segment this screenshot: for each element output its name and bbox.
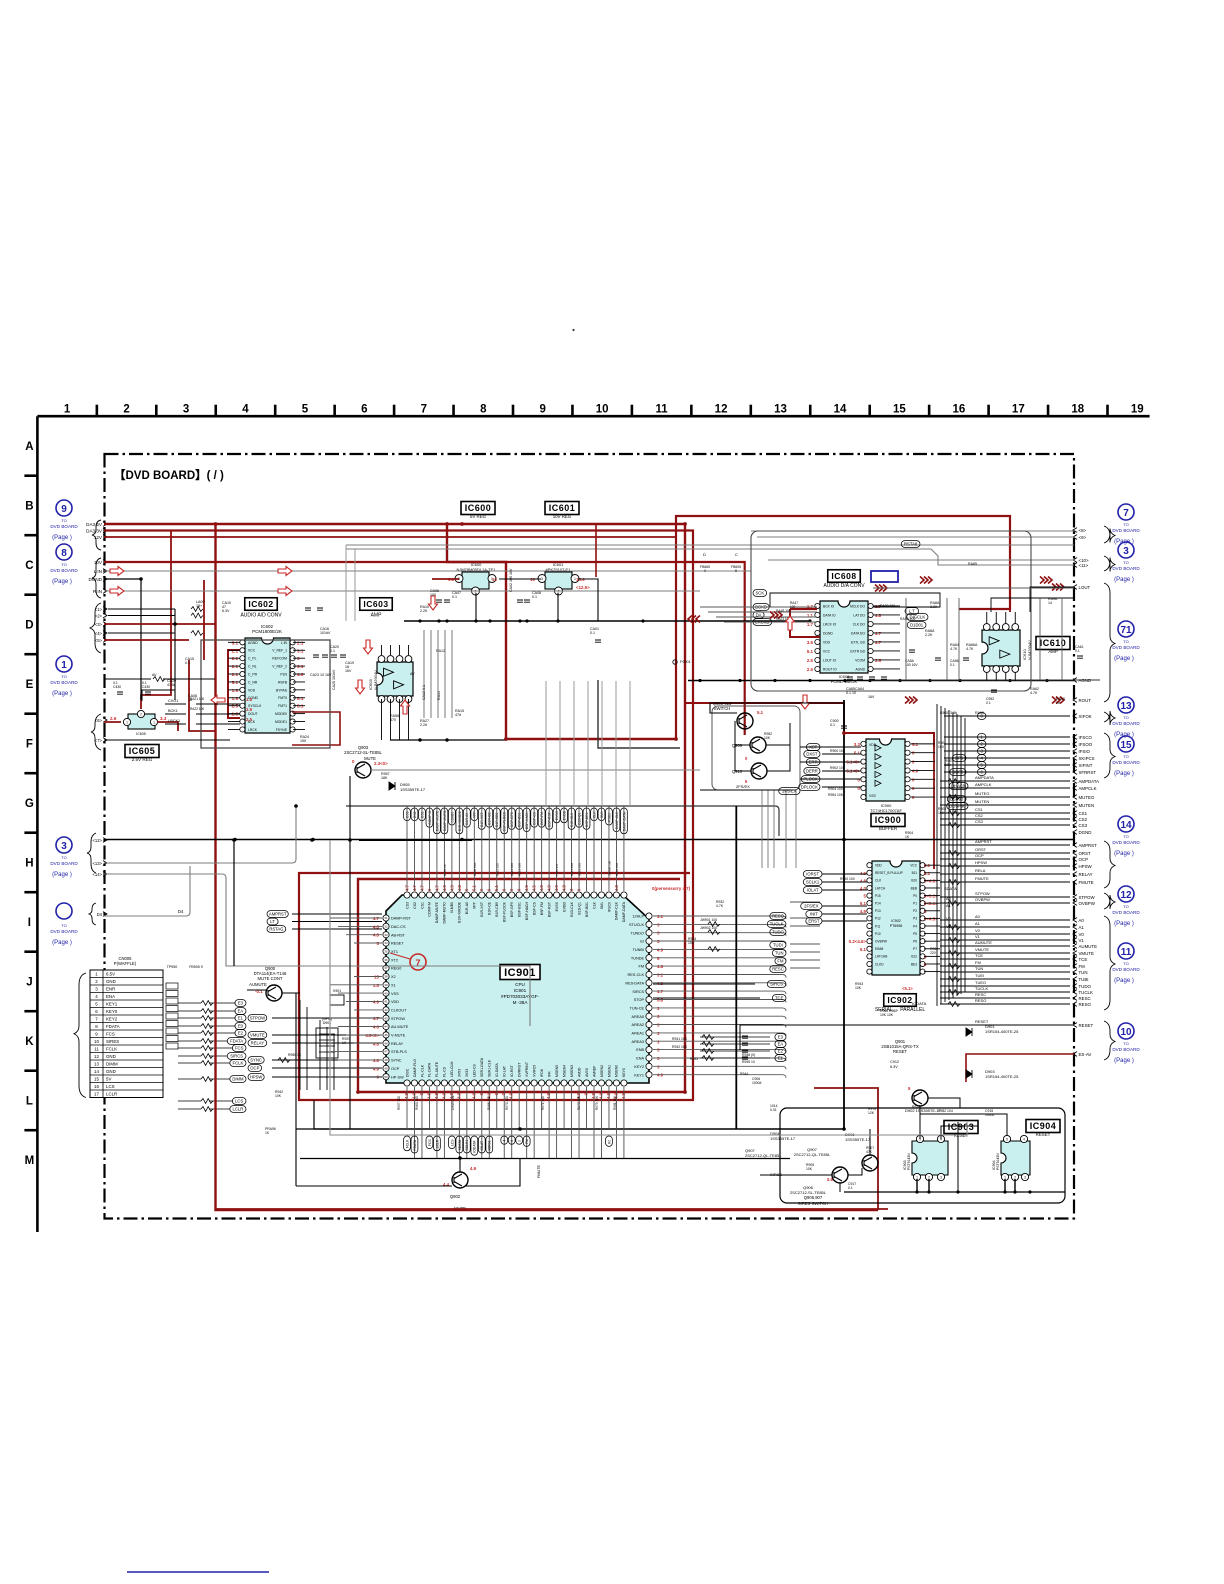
- IC608 caps below: [846, 677, 887, 699]
- svg-text:4: 4: [503, 1140, 507, 1142]
- svg-text:RA12: RA12: [436, 649, 445, 653]
- page ref circle 15 right: [1112, 736, 1140, 777]
- svg-text:LATCH: LATCH: [875, 886, 886, 890]
- svg-text:DAMP-FLO: DAMP-FLO: [413, 1059, 417, 1077]
- svg-text:MODE1: MODE1: [275, 720, 287, 724]
- svg-text:1.6: 1.6: [232, 696, 239, 701]
- svg-text:IO-RST: IO-RST: [510, 1064, 514, 1077]
- gray bus top right 1: [346, 544, 1074, 546]
- svg-text:IOLAT: IOLAT: [480, 1141, 484, 1151]
- SIRCS TCE wires: [653, 983, 755, 985]
- svg-text:1SR154-400TE-25: 1SR154-400TE-25: [985, 1029, 1019, 1034]
- svg-text:TO: TO: [1123, 961, 1128, 966]
- svg-text:P5: P5: [913, 932, 917, 936]
- svg-text:3: 3: [183, 404, 189, 416]
- svg-text:100: 100: [938, 745, 944, 749]
- svg-text:3V33: 3V33: [465, 1069, 469, 1077]
- maroon across to IC608: [790, 608, 817, 610]
- svg-text:CS2: CS2: [975, 813, 984, 818]
- svg-text:DATA DO: DATA DO: [851, 631, 865, 635]
- svg-text:IFSC0: IFSC0: [607, 902, 611, 912]
- black vertical x844: [843, 700, 845, 1129]
- maroon IC900 supply: [685, 703, 934, 747]
- svg-text:5.1: 5.1: [297, 696, 304, 701]
- svg-text:CA13 0.1: CA13 0.1: [422, 685, 426, 700]
- svg-text:1SS355TE-17: 1SS355TE-17: [845, 1137, 871, 1142]
- svg-text:45: 45: [384, 1033, 388, 1037]
- svg-text:P4: P4: [913, 924, 917, 928]
- board outline dash-dot border: [105, 454, 1075, 1219]
- svg-text:E0: E0: [238, 1024, 244, 1029]
- svg-text:MSEN4: MSEN4: [562, 1065, 566, 1077]
- svg-text:BYPAS: BYPAS: [276, 688, 288, 692]
- left input (6): [95, 718, 107, 723]
- svg-text:LATCHB: LATCHB: [875, 955, 887, 959]
- IC901 top fan net labels: [404, 808, 628, 834]
- svg-text:TUCLK: TUCLK: [770, 922, 784, 927]
- svg-text:SCLK1: SCLK1: [465, 1140, 469, 1151]
- svg-text:AUDIO A/D CONV: AUDIO A/D CONV: [240, 613, 282, 619]
- svg-text:IO-DATA: IO-DATA: [495, 1063, 499, 1077]
- svg-text:4.7: 4.7: [875, 640, 882, 645]
- page ref circle 1: [50, 656, 78, 697]
- svg-text:LCS: LCS: [450, 1139, 454, 1146]
- IC610 body: [982, 624, 1020, 673]
- svg-text:EXTL GD: EXTL GD: [851, 640, 866, 644]
- right connector RESET: [1073, 1023, 1093, 1028]
- svg-text:X1: X1: [391, 983, 396, 987]
- svg-text:CS3: CS3: [1079, 823, 1088, 828]
- svg-text:1: 1: [1004, 1175, 1006, 1179]
- svg-text:LED-CS: LED-CS: [473, 1063, 477, 1077]
- left input (3): [95, 622, 107, 627]
- right connector RELAY: [1073, 872, 1093, 877]
- svg-text:BSP-CS: BSP-CS: [532, 901, 536, 915]
- left brace group B/C: [92, 520, 101, 550]
- IC901 right pin wires: [653, 916, 786, 1078]
- vertical from 12 line: [233, 840, 235, 966]
- svg-text:IORS1: IORS1: [488, 1140, 492, 1150]
- svg-text:TO: TO: [1123, 639, 1128, 644]
- IC603 body: [377, 656, 413, 703]
- left input (12): [92, 838, 107, 843]
- svg-text:4.7K: 4.7K: [716, 904, 724, 908]
- svg-text:ES-AV: ES-AV: [1079, 1052, 1092, 1057]
- svg-text:DATA IO: DATA IO: [823, 613, 836, 617]
- page ref circle 13 right: [1112, 697, 1140, 738]
- left D maroon wires: [104, 623, 215, 625]
- left input 12V: [94, 535, 107, 540]
- svg-text:3: 3: [297, 656, 300, 661]
- svg-text:SIRCS: SIRCS: [230, 1054, 243, 1059]
- svg-text:6.3V: 6.3V: [222, 609, 230, 613]
- svg-text:FL-MUTE: FL-MUTE: [435, 1061, 439, 1077]
- svg-text:19: 19: [1131, 404, 1144, 416]
- wire DGND black: [104, 579, 141, 700]
- svg-text:RESET: RESET: [1036, 1132, 1051, 1137]
- svg-text:4.9: 4.9: [471, 1092, 476, 1098]
- svg-text:MUTEN: MUTEN: [1079, 803, 1095, 808]
- svg-text:1K: 1K: [905, 835, 910, 839]
- svg-text:B11: B11: [912, 871, 918, 875]
- svg-text:TUDO: TUDO: [772, 930, 785, 935]
- svg-text:R920 100: R920 100: [840, 877, 855, 881]
- reset diodes D901 D903: [966, 1028, 972, 1036]
- svg-text:RESET: RESET: [391, 942, 404, 946]
- svg-text:MUTEG: MUTEG: [975, 791, 989, 796]
- comb lower resistor network: [700, 1037, 770, 1058]
- IC902 input labels: [801, 871, 822, 925]
- svg-text:DVD BOARD: DVD BOARD: [1112, 840, 1140, 845]
- IC902 right wires: [924, 865, 940, 971]
- svg-text:RA22 100: RA22 100: [190, 707, 204, 711]
- svg-text:FCS: FCS: [428, 1139, 432, 1147]
- svg-text:HP-SW: HP-SW: [391, 1075, 404, 1079]
- svg-text:SYNC: SYNC: [250, 1058, 262, 1063]
- svg-text:4.9: 4.9: [441, 1092, 446, 1098]
- svg-text:RSTAG: RSTAG: [269, 927, 283, 932]
- svg-text:1.6: 1.6: [246, 697, 253, 702]
- svg-text:SCLK1: SCLK1: [806, 880, 820, 885]
- svg-text:13: 13: [94, 1061, 99, 1066]
- svg-text:10K: 10K: [764, 736, 771, 740]
- svg-text:DIMM: DIMM: [106, 1061, 118, 1066]
- bottom maroon line: [216, 1208, 889, 1210]
- svg-text:DERR: DERR: [806, 769, 818, 774]
- svg-text:IFSCO: IFSCO: [1079, 735, 1093, 740]
- svg-text:100: 100: [430, 593, 436, 597]
- svg-text:KEY2: KEY2: [106, 1016, 118, 1021]
- svg-text:44: 44: [384, 1025, 388, 1029]
- top ruler line: [37, 415, 1149, 418]
- svg-text:38: 38: [384, 975, 388, 979]
- svg-text:OVBPW: OVBPW: [975, 897, 990, 902]
- svg-text:RESET_B PULLUP: RESET_B PULLUP: [875, 871, 903, 875]
- svg-text:REFCOM: REFCOM: [272, 657, 287, 661]
- svg-text:FCLK: FCLK: [405, 1139, 409, 1148]
- right connector CS3: [1073, 823, 1088, 828]
- svg-text:TUNDO: TUNDO: [631, 931, 645, 935]
- IC903 label: [944, 1121, 978, 1134]
- svg-text:3: 3: [61, 841, 67, 852]
- svg-text:4.9: 4.9: [860, 909, 867, 914]
- svg-text:AMPCLK: AMPCLK: [1079, 786, 1097, 791]
- svg-text:0(persensorry 4.7): 0(persensorry 4.7): [652, 886, 691, 891]
- mid vertical wires left of IC901: [300, 1000, 334, 1090]
- svg-text:FCS: FCS: [235, 1046, 244, 1051]
- IC904 label: [1026, 1120, 1060, 1133]
- svg-text:RESC: RESC: [1079, 996, 1091, 1001]
- right connector TUCLK: [1073, 990, 1093, 995]
- IC602 body: [240, 638, 295, 733]
- svg-text:A0: A0: [1079, 918, 1085, 923]
- svg-text:NJM2904V: NJM2904V: [373, 670, 378, 690]
- svg-text:1: 1: [916, 1175, 918, 1179]
- CN005 output signal names: [178, 1000, 246, 1113]
- svg-text:<12.9>: <12.9>: [576, 585, 590, 590]
- svg-text:SIRES: SIRES: [106, 1039, 119, 1044]
- svg-text:3: 3: [541, 577, 543, 581]
- maroon IC602 left: [228, 650, 240, 718]
- svg-text:X901: X901: [333, 989, 341, 993]
- svg-text:DA3.5V: DA3.5V: [86, 522, 103, 527]
- svg-text:DAMP-MUTE: DAMP-MUTE: [435, 901, 439, 923]
- svg-text:MODE0: MODE0: [275, 712, 287, 716]
- svg-text:DPLOCK: DPLOCK: [801, 785, 818, 790]
- left CX wires: [168, 699, 180, 723]
- svg-text:COMP-M: COMP-M: [428, 902, 432, 917]
- svg-text:FL-CLK: FL-CLK: [420, 1064, 424, 1077]
- IC900 input wires: [800, 747, 861, 787]
- left input (14): [92, 872, 107, 877]
- right comb jumpers: [948, 779, 960, 1007]
- svg-text:PCM1800E/2K: PCM1800E/2K: [252, 629, 282, 634]
- svg-text:4.9: 4.9: [657, 1073, 664, 1078]
- svg-text:FMT1: FMT1: [278, 704, 287, 708]
- long black AGND bus right: [688, 680, 1074, 682]
- svg-text:R902 100: R902 100: [830, 766, 845, 770]
- svg-text:PT6958: PT6958: [890, 924, 903, 928]
- Q902 wires: [296, 1185, 452, 1187]
- svg-text:TUNBI: TUNBI: [633, 948, 644, 952]
- svg-text:STPOW: STPOW: [975, 891, 990, 896]
- svg-text:2: 2: [928, 1175, 930, 1179]
- svg-text:IC904: IC904: [1030, 1121, 1057, 1131]
- svg-text:0.1: 0.1: [1075, 649, 1080, 653]
- svg-text:TUEO: TUEO: [975, 980, 986, 985]
- CN005 connector table: [90, 956, 163, 1098]
- svg-text:STPOW: STPOW: [391, 1017, 405, 1021]
- svg-text:AB-RST: AB-RST: [391, 933, 406, 937]
- svg-text:L.IN: L.IN: [281, 641, 288, 645]
- IC605 wires: [142, 690, 175, 701]
- svg-text:3.1: 3.1: [297, 648, 304, 653]
- left rows D wires: [108, 609, 175, 633]
- svg-text:3V93: 3V93: [458, 1069, 462, 1077]
- svg-text:FMUTE: FMUTE: [975, 876, 989, 881]
- svg-text:XIFOK: XIFOK: [1079, 714, 1092, 719]
- right column vertical bus: [937, 704, 965, 1006]
- svg-text:10V: 10V: [94, 560, 103, 565]
- svg-text:2.1: 2.1: [297, 640, 304, 645]
- svg-text:12: 12: [715, 404, 728, 416]
- svg-text:SER1-CLK: SER1-CLK: [488, 1059, 492, 1077]
- svg-text:<7>: <7>: [95, 738, 103, 743]
- svg-text:5.1: 5.1: [757, 710, 764, 715]
- svg-text:4.7: 4.7: [373, 916, 380, 921]
- svg-text:BEB: BEB: [911, 886, 917, 890]
- 2FS/EX wire: [700, 789, 790, 791]
- svg-text:RELAY: RELAY: [251, 1041, 265, 1046]
- audio section box: [201, 640, 330, 748]
- svg-text:FDATA: FDATA: [106, 1024, 120, 1029]
- svg-text:AREA2: AREA2: [632, 1023, 644, 1027]
- svg-text:MCLK DO: MCLK DO: [850, 604, 865, 608]
- svg-text:<4>: <4>: [95, 631, 103, 636]
- svg-text:EVSS: EVSS: [555, 901, 559, 911]
- IC605 body: [123, 710, 157, 729]
- svg-text:AMPDATA: AMPDATA: [975, 775, 994, 780]
- svg-text:B1R-XST: B1R-XST: [480, 901, 484, 917]
- svg-text:P0: P0: [913, 894, 917, 898]
- XT crystal X901: [330, 995, 344, 1005]
- svg-text:DAMP-CLK: DAMP-CLK: [615, 901, 619, 920]
- right connector AGND: [1073, 678, 1091, 683]
- svg-text:LT: LT: [270, 919, 275, 924]
- svg-text:DAMP-RST: DAMP-RST: [391, 917, 412, 921]
- page ref circle 14 right: [1112, 816, 1140, 857]
- svg-text:100: 100: [945, 763, 951, 767]
- IC608 enclosure box: [751, 531, 1031, 691]
- svg-text:0.2<4.6>: 0.2<4.6>: [849, 939, 867, 944]
- svg-text:TO: TO: [1123, 1041, 1128, 1046]
- svg-text:CS3: CS3: [975, 819, 984, 824]
- svg-text:B1R-A0: B1R-A0: [465, 902, 469, 914]
- svg-text:D: D: [703, 552, 706, 557]
- IC901 label: [500, 965, 540, 980]
- svg-text:P7: P7: [913, 947, 917, 951]
- svg-text:1.7: 1.7: [807, 622, 814, 627]
- right connector <10>: [1073, 558, 1089, 563]
- svg-text:2.1: 2.1: [232, 664, 239, 669]
- svg-text:<13>: <13>: [92, 861, 102, 866]
- black vertical x736: [735, 806, 737, 1129]
- maroon stub IC605 right: [157, 722, 178, 731]
- svg-text:(Page ): (Page ): [52, 872, 72, 878]
- svg-text:E2: E2: [778, 1049, 784, 1054]
- svg-text:F: F: [26, 738, 33, 750]
- svg-text:#PD703033AYGF-: #PD703033AYGF-: [501, 994, 539, 999]
- svg-text:SDATA: SDATA: [458, 1139, 462, 1151]
- svg-text:MUTE CONT: MUTE CONT: [258, 976, 283, 981]
- right connector AUMUTE: [1073, 944, 1097, 949]
- svg-text:DVD BOARD: DVD BOARD: [1112, 721, 1140, 726]
- svg-text:MUTEG: MUTEG: [1079, 795, 1095, 800]
- svg-text:BSP-FM: BSP-FM: [540, 902, 544, 915]
- svg-text:E2: E2: [238, 1031, 244, 1036]
- vertical bundle right of fan: [762, 790, 796, 868]
- svg-text:0.6: 0.6: [827, 1177, 833, 1182]
- svg-text:100: 100: [790, 605, 796, 609]
- wire D4 gray: [104, 866, 190, 916]
- svg-text:<14>: <14>: [92, 872, 102, 877]
- IC903 body: [912, 1135, 948, 1180]
- svg-text:4.8: 4.8: [875, 613, 882, 618]
- svg-text:DHACN: DHACN: [951, 784, 966, 789]
- svg-text:15: 15: [893, 404, 906, 416]
- svg-text:P11: P11: [875, 924, 881, 928]
- svg-text:DIMM: DIMM: [232, 1077, 244, 1082]
- svg-text:XT2: XT2: [391, 958, 398, 962]
- right connector XKIPCS: [1073, 756, 1095, 761]
- svg-text:4: 4: [1023, 1137, 1025, 1141]
- page ref circle 10 right: [1112, 1023, 1140, 1064]
- svg-text:TC74HC17007AF: TC74HC17007AF: [870, 808, 902, 813]
- svg-text:R981 10K: R981 10K: [613, 1095, 617, 1110]
- svg-text:(NPM): (NPM): [322, 1017, 332, 1021]
- Q903 wires: [371, 769, 700, 771]
- svg-text:4.6: 4.6: [373, 1025, 380, 1030]
- svg-text:(Page ): (Page ): [52, 691, 72, 697]
- svg-text:2FS/EX: 2FS/EX: [804, 904, 819, 909]
- svg-text:12HLP: 12HLP: [632, 915, 644, 919]
- red chevrons LOUT path: [920, 577, 932, 584]
- svg-text:8: 8: [61, 548, 67, 559]
- svg-text:LCS: LCS: [235, 1099, 243, 1104]
- IC900 red values: [846, 742, 918, 800]
- page ref circle 7 right: [1112, 504, 1140, 545]
- svg-text:BCK IO: BCK IO: [823, 604, 835, 608]
- switch area wires: [710, 703, 844, 713]
- maroon bottom right riser: [814, 1088, 878, 1210]
- svg-text:FCLK: FCLK: [233, 1061, 244, 1066]
- svg-text:RESET: RESET: [1079, 1023, 1094, 1028]
- svg-text:12: 12: [1120, 890, 1132, 901]
- svg-text:CLKD: CLKD: [875, 962, 884, 966]
- svg-text:4.9: 4.9: [404, 1092, 409, 1098]
- svg-text:2: 2: [123, 404, 129, 416]
- wire DA3.3V maroon: [104, 531, 693, 1101]
- svg-text:6: 6: [361, 404, 367, 416]
- svg-text:SIRCS: SIRCS: [632, 990, 644, 994]
- svg-text:R IN: R IN: [93, 589, 102, 594]
- svg-text:KEY2: KEY2: [634, 1065, 644, 1069]
- right connector VMUTE: [1073, 951, 1094, 956]
- IC901 red circle 7: [410, 954, 426, 970]
- svg-text:CLK: CLK: [592, 901, 596, 908]
- svg-text:IOLAT: IOLAT: [807, 888, 819, 893]
- left brace group D: [90, 603, 101, 653]
- svg-text:BSP-RST: BSP-RST: [547, 901, 551, 917]
- svg-text:VSS: VSS: [391, 992, 399, 996]
- IC900 right wires: [911, 744, 935, 797]
- svg-text:AREA3: AREA3: [632, 1040, 644, 1044]
- svg-text:P2: P2: [913, 909, 917, 913]
- svg-text:SIRCS: SIRCS: [770, 982, 783, 987]
- svg-text:R957 100: R957 100: [397, 1096, 401, 1110]
- svg-text:4.9: 4.9: [373, 1066, 380, 1071]
- svg-text:AMPRST: AMPRST: [269, 912, 287, 917]
- svg-text:OVBPW: OVBPW: [875, 939, 887, 943]
- svg-text:10K 10K: 10K 10K: [880, 1013, 894, 1017]
- svg-text:ERST: ERST: [808, 919, 820, 924]
- svg-text:B1R-CB9: B1R-CB9: [495, 902, 499, 917]
- svg-text:470: 470: [390, 718, 396, 722]
- svg-text:AMP: AMP: [1048, 649, 1058, 654]
- svg-text:DVD BOARD: DVD BOARD: [1112, 1047, 1140, 1052]
- svg-text:0<5.1>: 0<5.1>: [924, 901, 938, 906]
- svg-text:AUMUTE: AUMUTE: [249, 982, 267, 987]
- wire L IN gray: [104, 570, 751, 572]
- svg-text:IO-LAT: IO-LAT: [503, 1065, 507, 1077]
- svg-text:2.5V REG: 2.5V REG: [132, 757, 153, 762]
- svg-text:R982 104: R982 104: [938, 1109, 953, 1113]
- svg-text:D4: D4: [97, 912, 103, 917]
- svg-text:SYNC: SYNC: [391, 1059, 402, 1063]
- svg-text:A0: A0: [975, 914, 981, 919]
- right connector ORST: [1073, 851, 1091, 856]
- svg-text:TUCLK: TUCLK: [975, 986, 988, 991]
- svg-text:V-MUTE: V-MUTE: [391, 1034, 406, 1038]
- left input DA3.5V: [86, 522, 107, 527]
- caps row between IC602 and IC603: [305, 608, 346, 657]
- svg-text:P12: P12: [875, 917, 881, 921]
- page ref circle 8: [50, 544, 78, 585]
- svg-text:0.1: 0.1: [113, 681, 118, 685]
- svg-text:5: 5: [1006, 1137, 1008, 1141]
- svg-text:K0: K0: [607, 1140, 611, 1144]
- right connector <8>: [1073, 528, 1087, 533]
